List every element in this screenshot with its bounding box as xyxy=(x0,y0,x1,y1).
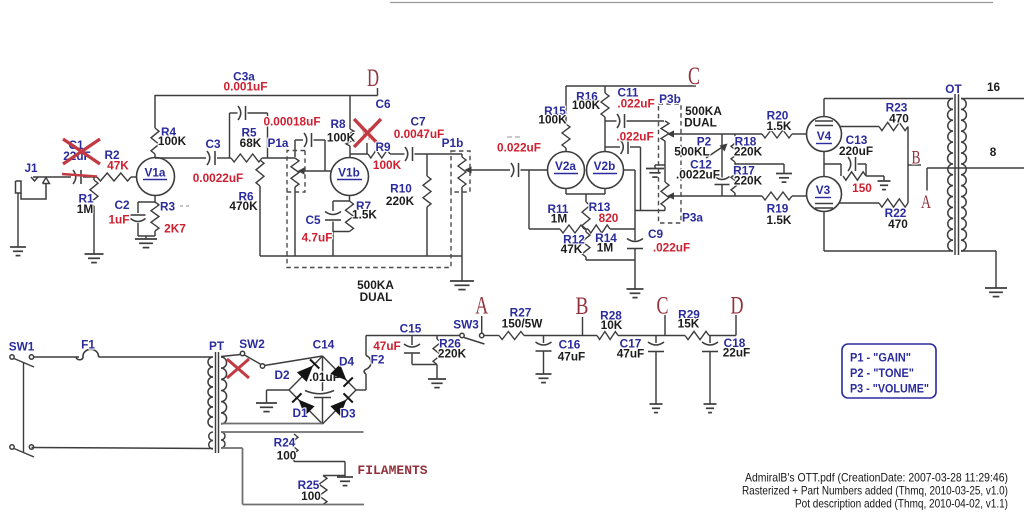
capacitor 0.00018uF (bright cap) xyxy=(295,133,325,171)
svg-text:C5: C5 xyxy=(305,213,321,227)
wire (cathode tap) xyxy=(824,164,841,176)
svg-text:V2b: V2b xyxy=(594,159,616,173)
wire (HV secondary bottom) xyxy=(221,423,323,425)
svg-text:C2: C2 xyxy=(114,198,130,212)
label C3a xyxy=(224,70,268,94)
ground (P3 mid) xyxy=(646,165,665,177)
label R13 xyxy=(589,200,619,225)
label 16 xyxy=(987,80,1001,94)
node B xyxy=(912,148,921,169)
potentiometer P2 element xyxy=(721,134,723,178)
capacitor C5 xyxy=(325,201,341,232)
label C6 xyxy=(375,97,391,111)
resistor R17 xyxy=(731,164,739,196)
wire (R27 to R28) xyxy=(524,335,597,337)
wire (V1a plate) xyxy=(155,157,206,159)
svg-text:P1 - "GAIN": P1 - "GAIN" xyxy=(850,353,911,365)
wire (R25 top) xyxy=(323,475,345,477)
wire (R5 box right) xyxy=(248,113,268,158)
svg-text:1uF: 1uF xyxy=(109,213,130,227)
ground (P1b) xyxy=(450,281,474,290)
svg-text:P1b: P1b xyxy=(442,136,464,150)
capacitor C3a xyxy=(238,106,246,120)
wire (C13 right) xyxy=(858,164,867,176)
svg-text:R9: R9 xyxy=(375,140,391,154)
svg-text:C6: C6 xyxy=(375,97,391,111)
svg-text:220K: 220K xyxy=(438,347,467,361)
svg-text:FILAMENTS: FILAMENTS xyxy=(357,463,427,478)
svg-text:PT: PT xyxy=(209,339,225,353)
legend box xyxy=(842,344,936,398)
resistor R18 xyxy=(731,134,739,164)
label R27 xyxy=(502,306,544,331)
diode D4 xyxy=(330,364,352,387)
label C9 xyxy=(648,227,690,255)
wire (PT to SW2) xyxy=(221,355,241,357)
label C14 xyxy=(309,338,340,385)
resistor R22 xyxy=(879,199,908,207)
label R6 xyxy=(229,190,258,214)
svg-text:C9: C9 xyxy=(648,227,664,241)
red X (SW2) xyxy=(227,359,249,378)
svg-text:V2a: V2a xyxy=(555,159,576,173)
switch SW3 xyxy=(460,333,485,344)
wire (filament bottom) xyxy=(221,448,364,505)
svg-text:1.5K: 1.5K xyxy=(352,208,377,222)
wire (feedback vertical) xyxy=(907,127,909,204)
erased C8 remnant xyxy=(507,136,520,138)
svg-text:1M: 1M xyxy=(77,202,94,216)
label 0.00018uF xyxy=(263,115,320,129)
attribution text xyxy=(742,471,1008,511)
transformer PT primary xyxy=(208,357,213,449)
label C10 xyxy=(616,130,653,144)
svg-text:10K: 10K xyxy=(601,318,623,332)
capacitor C11 xyxy=(617,114,625,128)
label SW1 xyxy=(9,340,35,354)
resistor R14 xyxy=(588,225,610,233)
erased cap remnant (C6) xyxy=(361,128,369,140)
svg-text:47uF: 47uF xyxy=(558,350,586,364)
label D1 xyxy=(292,406,308,420)
triode V1a xyxy=(137,158,175,196)
svg-text:.022uF: .022uF xyxy=(653,241,690,255)
svg-text:220K: 220K xyxy=(386,194,415,208)
wire (R28 to R29) xyxy=(618,335,685,337)
svg-text:150/5W: 150/5W xyxy=(502,317,544,331)
resistor R16 xyxy=(601,86,609,152)
label R1 xyxy=(77,192,94,217)
label C1 xyxy=(63,138,91,163)
label D4 xyxy=(339,355,355,369)
triode V2b xyxy=(587,152,624,189)
svg-text:4.7uF: 4.7uF xyxy=(302,231,333,245)
wire (C11 to P3b) xyxy=(627,120,665,122)
label R7 xyxy=(352,199,377,222)
wire (bridge minus) xyxy=(267,390,290,403)
node A stub xyxy=(481,316,483,333)
label F1 xyxy=(81,338,95,352)
wire (SW2 to bridge) xyxy=(265,356,323,366)
capacitor C10 xyxy=(621,140,629,154)
svg-text:8: 8 xyxy=(990,145,997,159)
bridge edge BR xyxy=(323,390,357,424)
label R9 xyxy=(373,140,402,172)
resistor 150 xyxy=(843,172,866,180)
wire P1a wiper to V1b grid xyxy=(298,167,332,174)
wire (F2 up) xyxy=(366,336,460,356)
wire P3a wiper to R19 xyxy=(667,192,762,199)
svg-text:47K: 47K xyxy=(561,242,583,256)
node A stub (OT) xyxy=(926,168,928,191)
svg-text:B: B xyxy=(912,148,921,169)
switch SW2 xyxy=(240,351,264,368)
wire (C7 to P1b) xyxy=(415,154,463,157)
potentiometer P1a element xyxy=(291,158,299,256)
label P1b xyxy=(442,136,464,150)
ground (R1) xyxy=(85,254,104,263)
capacitor C13 xyxy=(848,157,856,171)
svg-text:SW3: SW3 xyxy=(453,318,479,332)
label P2 xyxy=(674,135,711,159)
label D2 xyxy=(274,368,290,382)
transformer PT secondary xyxy=(221,357,227,448)
resistor R24 xyxy=(290,434,298,460)
label PT xyxy=(209,339,225,353)
ground (C2/R3) xyxy=(135,239,157,248)
svg-text:470: 470 xyxy=(888,217,908,231)
label R12 xyxy=(561,233,586,257)
svg-text:R8: R8 xyxy=(330,117,346,131)
label C3 xyxy=(193,137,244,185)
svg-text:P3 - "VOLUME": P3 - "VOLUME" xyxy=(850,384,929,396)
transformer OT primary xyxy=(948,99,953,252)
bridge edge BL xyxy=(289,390,323,424)
wire (OT secondary bottom) xyxy=(961,251,996,288)
ground (C16) xyxy=(536,374,552,383)
svg-text:500KL: 500KL xyxy=(674,145,709,159)
wire (SW1 to F1) xyxy=(34,356,80,358)
label J1 xyxy=(24,161,38,175)
label C16 xyxy=(558,338,586,364)
wire (input) xyxy=(33,176,71,178)
resistor R13 xyxy=(582,202,590,229)
svg-text:SW2: SW2 xyxy=(239,337,265,351)
resistor R19 xyxy=(762,192,807,200)
wire (SW3 to R27) xyxy=(484,335,499,337)
wire (V2b plate side) xyxy=(624,170,636,241)
wire (V3 to R22) xyxy=(839,202,879,204)
svg-text:100K: 100K xyxy=(572,98,601,112)
transformer OT core xyxy=(955,94,959,255)
label D3 xyxy=(340,407,356,421)
svg-text:2K7: 2K7 xyxy=(164,222,186,236)
label SW3 xyxy=(453,318,479,332)
label R23 xyxy=(886,101,910,126)
resistor R15 xyxy=(562,86,570,152)
label R4 xyxy=(158,125,187,148)
wire (R2 to V1a) xyxy=(131,176,137,178)
svg-text:.0022uF: .0022uF xyxy=(676,168,720,182)
svg-text:P2 - "TONE": P2 - "TONE" xyxy=(850,368,914,380)
tube V4 xyxy=(807,117,842,152)
svg-text:C15: C15 xyxy=(400,322,422,336)
ground (OT) xyxy=(985,288,1007,297)
svg-text:150: 150 xyxy=(852,181,872,195)
wire (grid drop) xyxy=(528,170,530,229)
wire (P3a bottom bus) xyxy=(635,210,665,212)
label OT xyxy=(945,82,962,96)
resistor R5 xyxy=(231,154,262,162)
label R20 xyxy=(767,109,792,134)
dashed outline P1 dual pot xyxy=(286,151,470,268)
label 500KA DUAL (P3) xyxy=(684,104,722,130)
label 8 xyxy=(990,145,997,159)
wire (R14 to C9) xyxy=(610,228,635,230)
ground (R17/R18) xyxy=(776,164,792,182)
label R2 xyxy=(104,148,129,173)
svg-text:1M: 1M xyxy=(597,241,614,255)
svg-text:47uF: 47uF xyxy=(373,339,401,353)
transformer OT secondary xyxy=(961,99,966,252)
svg-text:470K: 470K xyxy=(229,199,258,213)
svg-text:1.5K: 1.5K xyxy=(767,213,792,227)
label C13 xyxy=(839,133,873,158)
label SW2 xyxy=(239,337,265,351)
wire (16 ohm tap) xyxy=(961,98,1024,100)
tube V3 xyxy=(807,177,842,212)
wire (bridge plus) xyxy=(356,374,366,390)
resistor R2 xyxy=(97,173,131,181)
svg-text:DUAL: DUAL xyxy=(360,290,393,304)
resistor R6 xyxy=(256,160,264,256)
resistor R12 xyxy=(582,229,590,260)
svg-text:R3: R3 xyxy=(160,200,176,214)
label P3a xyxy=(682,211,703,225)
node D stub xyxy=(735,315,737,336)
svg-text:0.022uF: 0.022uF xyxy=(497,141,541,155)
svg-text:OT: OT xyxy=(945,82,962,96)
dashed outline P3 dual pot xyxy=(659,104,682,223)
label P1a xyxy=(268,136,289,150)
svg-text:P1a: P1a xyxy=(268,136,289,150)
wire (R26 ground) xyxy=(436,365,438,380)
label R19 xyxy=(767,202,792,228)
resistor R27 xyxy=(499,332,524,340)
capacitor C9 xyxy=(627,239,643,290)
svg-text:V4: V4 xyxy=(817,129,832,143)
node B (rail) xyxy=(576,293,589,320)
svg-text:470: 470 xyxy=(889,112,909,126)
svg-text:B: B xyxy=(576,293,589,320)
resistor R25 xyxy=(319,476,327,505)
svg-text:47K: 47K xyxy=(107,159,129,173)
red X over C6 xyxy=(354,119,381,147)
svg-text:220uF: 220uF xyxy=(839,144,873,158)
wire (R5 to P1a) xyxy=(262,157,295,159)
potentiometer P3a element xyxy=(661,182,669,211)
wire (filament top) xyxy=(221,431,364,433)
resistor R9 xyxy=(350,150,390,158)
switch SW1 xyxy=(10,355,34,457)
svg-text:D2: D2 xyxy=(274,368,290,382)
wire (rail D) xyxy=(155,88,378,96)
wire (cap to V2a) xyxy=(521,169,548,171)
wire (R11-R14 link) xyxy=(584,228,588,230)
resistor R26 xyxy=(433,336,441,365)
label R16 xyxy=(572,90,601,113)
capacitor 0.022uF (V2 grid) xyxy=(511,163,519,177)
svg-text:.022uF: .022uF xyxy=(617,97,654,111)
label R3 xyxy=(160,200,189,236)
label 500KA DUAL (P1) xyxy=(357,278,394,304)
svg-text:100: 100 xyxy=(301,489,321,503)
label 0.022uF xyxy=(497,141,541,155)
node D (rail) xyxy=(731,293,744,320)
wire (R16 to C11) xyxy=(605,120,617,122)
wire (to ground C13) xyxy=(866,176,884,181)
diode D1 xyxy=(292,393,314,416)
label R8 xyxy=(327,117,356,145)
node C (top) xyxy=(688,63,700,90)
node B stub (rail) xyxy=(582,317,584,336)
ground (C15/R26) xyxy=(428,379,446,388)
capacitor C14 xyxy=(305,356,334,424)
svg-text:1.5K: 1.5K xyxy=(767,119,792,133)
label R14 xyxy=(595,231,617,255)
label C7 xyxy=(394,115,445,142)
svg-text:DUAL: DUAL xyxy=(684,116,717,130)
wire (C15 bottom) xyxy=(412,364,437,366)
label P3b xyxy=(659,92,681,106)
label 47uF (C15) xyxy=(373,339,401,353)
svg-text:V1a: V1a xyxy=(145,166,166,180)
ground (C18) xyxy=(704,404,717,413)
resistor R4 xyxy=(151,95,159,158)
svg-text:J1: J1 xyxy=(24,161,38,175)
wire (to C10) xyxy=(605,146,620,148)
potentiometer P3b element xyxy=(661,121,669,182)
node A xyxy=(475,293,488,320)
resistor R28 xyxy=(597,332,618,340)
label R11 xyxy=(548,202,569,226)
wire (V1a cathode) xyxy=(138,196,155,203)
svg-text:0.001uF: 0.001uF xyxy=(224,80,268,94)
wire (V2 cathodes) xyxy=(566,189,605,203)
wire (R5 box left) xyxy=(230,113,238,158)
svg-text:C: C xyxy=(657,293,669,320)
capacitor C18 xyxy=(702,336,718,405)
wire (cathode bottom V1b) xyxy=(333,232,350,257)
label R28 xyxy=(600,309,623,333)
label R22 xyxy=(885,206,909,231)
red X over C1 xyxy=(62,139,100,177)
resistor R29 xyxy=(685,331,709,339)
ground (C17) xyxy=(650,404,663,413)
wire (V4-V3 link) xyxy=(823,152,825,177)
label C17 xyxy=(617,337,645,361)
wire (cathode bottom) xyxy=(138,236,155,239)
svg-text:D1: D1 xyxy=(292,406,308,420)
wire (rail C) xyxy=(566,85,696,87)
svg-text:R24: R24 xyxy=(274,436,296,450)
label R10 xyxy=(386,182,415,209)
bridge edge TR xyxy=(323,356,357,390)
resistor R8 xyxy=(346,95,354,158)
svg-text:C3: C3 xyxy=(205,137,221,151)
capacitor C17 xyxy=(648,336,664,405)
capacitor C15 xyxy=(404,336,420,365)
resistor R3 xyxy=(151,202,159,236)
label R17 xyxy=(733,164,762,188)
svg-text:100K: 100K xyxy=(538,113,567,127)
label R29 xyxy=(678,308,701,331)
triode V1b xyxy=(331,158,369,196)
capacitor C12 xyxy=(715,177,730,197)
wire (C1 to R2) xyxy=(83,176,97,178)
fuse F1 xyxy=(76,349,99,359)
fuse F2 xyxy=(364,356,371,375)
wire (8 ohm tap) xyxy=(927,167,1024,169)
resistor R10 xyxy=(423,154,431,256)
wire (C3 to R5) xyxy=(217,157,231,159)
svg-text:15K: 15K xyxy=(678,317,700,331)
svg-text:Rasterized + Part Numbers adde: Rasterized + Part Numbers added (Thmq, 2… xyxy=(742,484,1008,498)
wire (R29 to D) xyxy=(709,335,736,337)
wire (V3 bottom rail) xyxy=(824,212,953,252)
svg-text:V3: V3 xyxy=(816,183,831,197)
capacitor C7 xyxy=(405,147,413,161)
resistor R7 xyxy=(346,201,354,232)
wire (C10 right) xyxy=(630,147,641,211)
svg-text:P3a: P3a xyxy=(682,211,703,225)
diode D3 xyxy=(330,393,352,416)
svg-text:47uF: 47uF xyxy=(617,347,645,361)
wire P3b wiper to R20 xyxy=(667,130,762,137)
label R26 xyxy=(438,337,467,361)
svg-text:1M: 1M xyxy=(551,212,568,226)
capacitor C16 xyxy=(536,336,552,375)
wire (R9 to C7) xyxy=(390,153,405,155)
label R24 xyxy=(274,436,297,463)
triode V2a xyxy=(548,152,585,189)
svg-text:C: C xyxy=(688,63,700,90)
svg-text:16: 16 xyxy=(987,80,1001,94)
node B stub xyxy=(908,164,921,166)
resistor R11 xyxy=(560,225,584,233)
node A (OT) xyxy=(921,192,931,213)
wire (R12 bottom) xyxy=(586,259,635,261)
svg-text:F2: F2 xyxy=(371,353,385,367)
svg-text:A: A xyxy=(475,293,488,320)
top border line xyxy=(390,2,993,4)
ground (C9) xyxy=(627,289,644,298)
wire (mains bottom) xyxy=(32,448,214,449)
svg-text:Pot description added (Thmq, 2: Pot description added (Thmq, 2010-04-02,… xyxy=(795,497,1008,511)
svg-text:A: A xyxy=(921,192,931,213)
wiper arrow P2 xyxy=(706,144,728,159)
svg-text:.022uF: .022uF xyxy=(616,130,653,144)
svg-text:68K: 68K xyxy=(240,136,262,150)
bridge edge TL xyxy=(289,356,323,390)
svg-text:100K: 100K xyxy=(327,131,356,145)
wire (F1 to PT) xyxy=(99,356,214,358)
node C (rail) xyxy=(657,293,669,320)
resistor R20 xyxy=(762,130,807,138)
svg-text:C14: C14 xyxy=(313,338,335,352)
capacitor C2 xyxy=(131,202,146,236)
svg-text:D4: D4 xyxy=(339,355,355,369)
